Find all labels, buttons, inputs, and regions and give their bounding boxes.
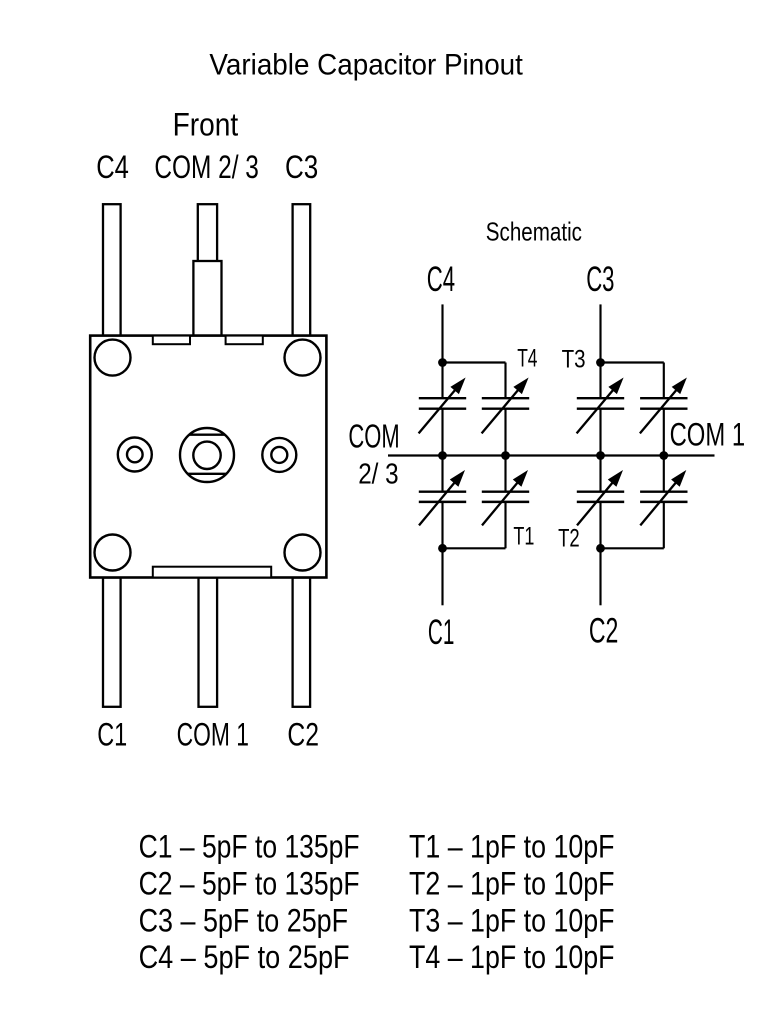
svg-text:T3 – 1pF to 10pF: T3 – 1pF to 10pF xyxy=(409,902,615,938)
svg-text:T2 – 1pF to 10pF: T2 – 1pF to 10pF xyxy=(409,865,615,901)
wire lower plate to bus (C3 section) xyxy=(599,409,601,456)
variable capacitor T3 xyxy=(640,378,688,434)
pin C1 (bottom, physical) xyxy=(103,578,121,707)
pin C3 (top, physical) xyxy=(293,204,311,335)
svg-text:2/ 3: 2/ 3 xyxy=(358,459,398,491)
center rotor xyxy=(180,428,234,482)
svg-text:C3: C3 xyxy=(586,260,614,299)
corner hole top-right xyxy=(285,340,321,376)
wire bus to upper plate (C1 section) xyxy=(441,456,443,492)
pin COM 2/3 (top, physical, stepped) xyxy=(198,204,217,261)
wire bottom branch to trimmer T2 xyxy=(601,547,664,549)
wire C2 vertical (bottom) xyxy=(599,548,601,605)
wire C4 junction to upper plate xyxy=(441,363,443,399)
svg-text:T3: T3 xyxy=(562,345,586,373)
wire lower plate to bus (C4 section) xyxy=(441,409,443,456)
node T3/T2 on bus xyxy=(659,451,668,460)
svg-text:C4: C4 xyxy=(96,149,129,185)
variable capacitor C4 xyxy=(419,378,467,434)
node C4 junction xyxy=(438,358,447,367)
corner hole bottom-left xyxy=(95,535,131,571)
wire bus to trimmer T1 upper plate xyxy=(504,456,506,492)
wire lower plate to bottom junction (C1 section) xyxy=(441,502,443,548)
svg-text:C2 – 5pF to 135pF: C2 – 5pF to 135pF xyxy=(139,865,360,901)
wire trimmer T3 lower plate to bus xyxy=(663,409,665,456)
svg-text:C1: C1 xyxy=(428,613,455,652)
variable capacitor T2 xyxy=(640,470,687,525)
bottom edge notch xyxy=(153,567,271,578)
variable capacitor C1 xyxy=(419,470,466,525)
svg-text:C2: C2 xyxy=(589,612,619,651)
svg-text:C1: C1 xyxy=(97,716,127,752)
COM bus wire (horizontal) xyxy=(388,454,715,456)
node T4/T1 on bus xyxy=(501,451,510,460)
corner hole bottom-right xyxy=(285,535,321,571)
wire trimmer T4 branch to upper plate xyxy=(504,363,506,399)
wire C4 vertical (top) xyxy=(441,304,443,362)
svg-text:COM 2/ 3: COM 2/ 3 xyxy=(154,149,259,185)
corner hole top-left xyxy=(95,340,131,376)
center rotor screw xyxy=(193,442,220,469)
svg-text:COM 1: COM 1 xyxy=(177,716,249,752)
wire trimmer T3 branch to upper plate xyxy=(663,363,665,399)
svg-text:T4 – 1pF to 10pF: T4 – 1pF to 10pF xyxy=(409,939,615,975)
svg-text:T2: T2 xyxy=(558,524,580,552)
node C2 junction xyxy=(596,544,605,553)
wire bus to trimmer T2 upper plate xyxy=(663,456,665,492)
right trimmer hole xyxy=(262,438,296,472)
wire lower plate to bottom junction (C2 section) xyxy=(599,502,601,548)
svg-text:T1 – 1pF to 10pF: T1 – 1pF to 10pF xyxy=(409,829,615,865)
svg-text:C2: C2 xyxy=(287,716,319,752)
wire bottom branch to trimmer T1 xyxy=(443,547,506,549)
package body xyxy=(90,336,326,578)
wire top branch to trimmer T3 xyxy=(601,361,664,363)
variable capacitor C2 xyxy=(577,470,624,525)
pin COM 1 (bottom, physical) xyxy=(199,578,218,707)
node C3 junction xyxy=(596,358,605,367)
variable capacitor C3 xyxy=(577,378,625,434)
wire trimmer T1 lower plate to branch xyxy=(504,502,506,548)
svg-text:T4: T4 xyxy=(517,345,537,373)
wire C1 vertical (bottom) xyxy=(441,548,443,605)
wire C3 vertical (top) xyxy=(599,304,601,362)
wire bus to upper plate (C2 section) xyxy=(599,456,601,492)
wire trimmer T2 lower plate to branch xyxy=(663,502,665,548)
svg-text:COM: COM xyxy=(348,417,399,454)
node C1 junction xyxy=(438,544,447,553)
svg-text:C3: C3 xyxy=(285,149,318,185)
variable capacitor T4 xyxy=(482,378,530,434)
svg-text:C4: C4 xyxy=(427,260,455,299)
svg-text:Schematic: Schematic xyxy=(486,216,582,246)
pin C2 (bottom, physical) xyxy=(293,578,311,707)
svg-text:C4 – 5pF to 25pF: C4 – 5pF to 25pF xyxy=(139,939,350,975)
svg-text:C3 – 5pF to 25pF: C3 – 5pF to 25pF xyxy=(139,902,349,938)
top edge notch right xyxy=(226,336,263,345)
svg-text:C1 – 5pF to 135pF: C1 – 5pF to 135pF xyxy=(139,829,360,865)
svg-text:T1: T1 xyxy=(513,522,534,550)
wire C3 junction to upper plate xyxy=(599,363,601,399)
left trimmer hole xyxy=(118,438,152,472)
node C3/C2 on bus xyxy=(596,451,605,460)
pin C4 (top, physical) xyxy=(103,204,121,335)
svg-text:Variable Capacitor Pinout: Variable Capacitor Pinout xyxy=(209,48,523,81)
wire top branch to trimmer T4 xyxy=(443,361,506,363)
top edge notch left xyxy=(153,336,190,345)
node C4/C1 on bus xyxy=(438,451,447,460)
variable capacitor T1 xyxy=(482,470,529,525)
svg-text:Front: Front xyxy=(173,107,239,143)
wire trimmer T4 lower plate to bus xyxy=(504,409,506,456)
svg-text:COM 1: COM 1 xyxy=(670,417,746,453)
